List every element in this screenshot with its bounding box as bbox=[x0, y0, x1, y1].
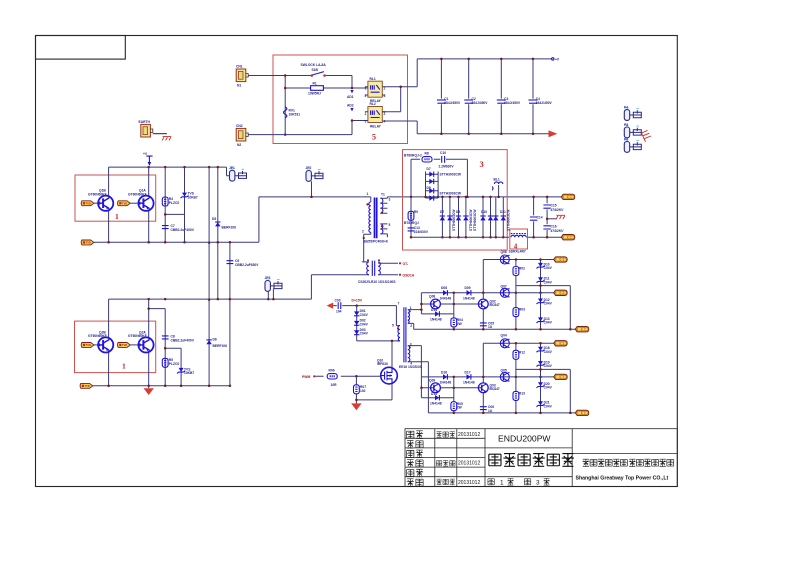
svg-text:C14: C14 bbox=[537, 216, 543, 220]
net arrow D+15V left bbox=[327, 303, 334, 309]
svg-text:N2: N2 bbox=[237, 143, 241, 147]
wire T2 sec A pins bbox=[408, 310, 422, 330]
designer names bbox=[436, 432, 455, 485]
svg-text:C04V: C04V bbox=[544, 404, 553, 408]
diode D5 bbox=[217, 167, 219, 300]
wire T2 sec B pins bbox=[408, 346, 429, 413]
svg-text:IRF630: IRF630 bbox=[377, 362, 388, 366]
capacitor C03 bbox=[333, 305, 396, 307]
svg-text:RL1: RL1 bbox=[370, 77, 376, 81]
svg-text:S1B: S1B bbox=[312, 68, 319, 72]
clamp diode D01 bbox=[356, 306, 358, 341]
wire clamp bottom to drain bbox=[357, 341, 400, 368]
capacitor C4 bbox=[529, 58, 553, 135]
zener D11 bbox=[537, 277, 545, 283]
capacitor C3 bbox=[497, 58, 521, 135]
svg-text:Q05: Q05 bbox=[501, 369, 507, 373]
svg-text:3: 3 bbox=[365, 119, 367, 123]
svg-text:D5: D5 bbox=[212, 217, 216, 221]
svg-text:R8: R8 bbox=[425, 152, 429, 156]
svg-text:D16: D16 bbox=[441, 370, 447, 374]
svg-text:BT80RQJ-2: BT80RQJ-2 bbox=[404, 153, 422, 157]
top bus lower IGBT section bbox=[109, 298, 312, 300]
svg-text:3: 3 bbox=[480, 159, 484, 169]
resistor R02 bbox=[513, 267, 519, 276]
svg-text:684J/450V: 684J/450V bbox=[536, 101, 553, 105]
svg-text:10W5RJ: 10W5RJ bbox=[308, 92, 321, 96]
bottom bus lower IGBT section bbox=[80, 383, 93, 388]
connector P6 bbox=[624, 140, 641, 152]
svg-text:C04V: C04V bbox=[360, 332, 369, 336]
secondary bottom rail bbox=[411, 236, 561, 238]
svg-text:1: 1 bbox=[500, 479, 504, 486]
svg-text:CBB2.2uF400V: CBB2.2uF400V bbox=[171, 228, 195, 232]
red highlight box 4 bbox=[510, 229, 528, 249]
capacitor C13 bbox=[408, 228, 415, 231]
zener D13 bbox=[537, 317, 545, 323]
net label PWM bbox=[313, 375, 315, 377]
svg-text:STTH6003CW: STTH6003CW bbox=[507, 209, 511, 231]
resistor R12 bbox=[513, 350, 519, 359]
svg-text:C04V: C04V bbox=[544, 266, 553, 270]
output terminal S1 bbox=[575, 327, 589, 332]
svg-text:PLZC0: PLZC0 bbox=[169, 201, 180, 205]
svg-text:20131012: 20131012 bbox=[458, 480, 480, 486]
svg-text:P4: P4 bbox=[624, 105, 628, 109]
svg-text:C04V: C04V bbox=[544, 321, 553, 325]
svg-text:1: 1 bbox=[122, 362, 126, 371]
svg-text:R13: R13 bbox=[519, 392, 525, 396]
earth symbol output bbox=[547, 218, 556, 220]
svg-text:10R: 10R bbox=[331, 383, 338, 387]
TVS D4 bbox=[165, 348, 181, 385]
svg-text:PLZC0: PLZC0 bbox=[169, 362, 180, 366]
svg-text:D14: D14 bbox=[431, 308, 437, 312]
wire Q10 source bbox=[356, 384, 392, 400]
current transformer CT1 bbox=[358, 259, 398, 284]
earth on P5 bbox=[642, 130, 652, 141]
revision box top-left bbox=[36, 36, 126, 60]
net arrow AD1 bbox=[350, 90, 353, 93]
svg-text:C04V: C04V bbox=[544, 385, 553, 389]
svg-text:BL1: BL1 bbox=[494, 178, 500, 182]
company name (Chinese) bbox=[582, 459, 673, 466]
svg-text:C15: C15 bbox=[551, 204, 557, 208]
connector JP2 bbox=[306, 169, 323, 181]
diode D08 bbox=[443, 290, 447, 295]
svg-text:Q07: Q07 bbox=[501, 285, 507, 289]
svg-text:2: 2 bbox=[362, 230, 364, 234]
resistor R07 bbox=[355, 376, 357, 403]
zener D20 bbox=[537, 382, 545, 388]
svg-text:Q09: Q09 bbox=[429, 378, 435, 382]
svg-text:C04V: C04V bbox=[544, 350, 553, 354]
svg-text:7: 7 bbox=[398, 302, 400, 306]
svg-text:RL2: RL2 bbox=[370, 102, 376, 106]
svg-text:1N4148: 1N4148 bbox=[463, 297, 475, 301]
svg-text:R9: R9 bbox=[414, 210, 418, 214]
wire left vertical of box5 bbox=[284, 76, 286, 135]
output terminal G2 bbox=[554, 290, 568, 295]
bottom rail driver A bbox=[414, 328, 576, 330]
svg-text:EE55/PC40/6+6: EE55/PC40/6+6 bbox=[364, 240, 388, 244]
svg-text:D7: D7 bbox=[427, 167, 431, 171]
capacitor C10 bbox=[442, 156, 445, 163]
+V power symbol left section bbox=[146, 156, 152, 163]
driver block A row gate bbox=[483, 259, 553, 261]
svg-text:AD1: AD1 bbox=[347, 95, 354, 99]
output cap C14 bbox=[533, 197, 535, 237]
output terminal G1 bbox=[554, 257, 568, 262]
svg-text:R02: R02 bbox=[519, 267, 525, 271]
resistor R1 bbox=[285, 87, 368, 89]
zener D18 bbox=[537, 347, 545, 353]
wire CN2 to relay 2 bbox=[248, 121, 368, 135]
svg-text:Shanghai Greatway Top Power CO: Shanghai Greatway Top Power CO.,Lt bbox=[576, 476, 669, 482]
svg-text:1N4148: 1N4148 bbox=[430, 401, 442, 405]
drive transformer T2 bbox=[392, 302, 423, 370]
svg-text:C16: C16 bbox=[551, 225, 557, 229]
svg-text:OSD1A: OSD1A bbox=[403, 273, 415, 277]
svg-text:1: 1 bbox=[365, 112, 367, 116]
svg-text:C10: C10 bbox=[440, 151, 446, 155]
TVS D3 bbox=[165, 167, 184, 214]
svg-text:D09: D09 bbox=[465, 286, 471, 290]
ground arrow bbox=[351, 403, 361, 410]
svg-text:R1: R1 bbox=[313, 81, 317, 85]
wire relay RL1 pin2 to cap bank bbox=[382, 87, 417, 112]
svg-text:P5: P5 bbox=[624, 123, 628, 127]
varistor RV1 bbox=[284, 107, 287, 118]
svg-text:D17: D17 bbox=[465, 370, 471, 374]
title block bbox=[405, 429, 677, 487]
output terminal G3 bbox=[554, 341, 568, 346]
svg-text:3: 3 bbox=[389, 198, 391, 202]
svg-text:5: 5 bbox=[389, 223, 391, 227]
wire cap bank bottom bus bbox=[417, 133, 548, 135]
middle vertical to bottom bus bbox=[229, 299, 231, 386]
wire TVS bottom joins bbox=[184, 214, 186, 242]
transistor Q08 row bbox=[421, 303, 478, 305]
svg-text:684J/450V: 684J/450V bbox=[504, 101, 521, 105]
vertical rails driver B bbox=[421, 343, 540, 413]
red highlight box 5 bbox=[273, 55, 408, 144]
capacitor C05 bbox=[480, 323, 487, 326]
diode D14 row bbox=[421, 313, 453, 315]
gate connector Q1A bbox=[118, 201, 131, 206]
connector CN5 earth bbox=[141, 124, 153, 137]
diode D6 bbox=[206, 340, 211, 344]
svg-text:1: 1 bbox=[367, 192, 369, 196]
connector CN1 (AC line in) bbox=[236, 69, 248, 82]
svg-text:JP1: JP1 bbox=[229, 166, 235, 170]
ground arrow red bbox=[148, 386, 150, 389]
output terminal OUT1 bbox=[561, 194, 575, 199]
transistor Q02 bbox=[478, 299, 488, 309]
svg-text:C04V: C04V bbox=[360, 322, 369, 326]
svg-text:1: 1 bbox=[115, 212, 119, 221]
switch S1B bbox=[301, 63, 327, 77]
resistor R08 bbox=[422, 157, 432, 162]
svg-text:20131012: 20131012 bbox=[458, 432, 480, 438]
connector P4 bbox=[624, 108, 641, 120]
svg-text:R12: R12 bbox=[519, 350, 525, 354]
svg-text:D+15V: D+15V bbox=[352, 298, 363, 302]
svg-text:D15: D15 bbox=[431, 392, 437, 396]
svg-text:10KB7: 10KB7 bbox=[188, 196, 198, 200]
resistor R4 bbox=[164, 167, 166, 242]
IGBT Q1A bbox=[148, 167, 150, 242]
mid wire to source terminal B bbox=[516, 369, 570, 413]
rectifier diode group DG1 bbox=[440, 196, 453, 239]
svg-text:2W: 2W bbox=[457, 406, 463, 410]
svg-text:STTH3003CW: STTH3003CW bbox=[440, 192, 462, 196]
+V power label bbox=[552, 58, 554, 60]
svg-text:STTH6003CW: STTH6003CW bbox=[452, 209, 456, 231]
svg-text:EE16 1S/3S/3S: EE16 1S/3S/3S bbox=[399, 365, 423, 369]
snubber loop wire bbox=[411, 159, 467, 197]
svg-text:2W: 2W bbox=[457, 322, 463, 326]
bottom rail driver B bbox=[428, 412, 575, 414]
svg-text:224/630V: 224/630V bbox=[414, 230, 429, 234]
gate connector Q2B bbox=[81, 343, 94, 348]
svg-text:C04V: C04V bbox=[360, 313, 369, 317]
capacitor C7 bbox=[162, 226, 169, 229]
wire CT primary return to lower bus bbox=[311, 275, 365, 299]
svg-text:1N4148: 1N4148 bbox=[463, 381, 475, 385]
output terminal S2 bbox=[575, 410, 589, 415]
svg-text:RELAY: RELAY bbox=[370, 125, 382, 129]
bottom bus of upper IGBT section bbox=[81, 240, 94, 245]
connector JP1 bbox=[230, 169, 247, 181]
resistor R5 bbox=[162, 358, 168, 367]
wire to chassis ground bbox=[153, 133, 167, 135]
svg-text:GT60N60KF: GT60N60KF bbox=[128, 192, 147, 196]
svg-text:3: 3 bbox=[536, 479, 540, 486]
svg-text:D08: D08 bbox=[441, 286, 447, 290]
svg-text:D11: D11 bbox=[500, 210, 506, 214]
svg-text:D9: D9 bbox=[456, 210, 460, 214]
resistor R05 bbox=[451, 402, 457, 411]
zener D10 bbox=[537, 263, 545, 269]
svg-text:CN2: CN2 bbox=[236, 124, 243, 128]
svg-text:EARTH: EARTH bbox=[139, 120, 151, 124]
svg-text:Q04: Q04 bbox=[501, 334, 507, 338]
svg-text:AD2: AD2 bbox=[347, 104, 354, 108]
red highlight box 3 bbox=[403, 150, 508, 250]
svg-text:CBB2.2uF630V: CBB2.2uF630V bbox=[235, 263, 259, 267]
transistor Q07 bbox=[500, 288, 509, 297]
svg-text:Q06: Q06 bbox=[501, 250, 507, 254]
svg-text:474/2KV: 474/2KV bbox=[550, 229, 565, 233]
IGBT Q2B bbox=[108, 299, 110, 386]
clamp diode D03 bbox=[354, 330, 359, 334]
svg-text:5: 5 bbox=[372, 133, 376, 142]
output caps C15 C16 bbox=[546, 197, 548, 237]
svg-text:D6: D6 bbox=[213, 337, 217, 341]
diode D17 bbox=[467, 374, 471, 379]
svg-text:10KB7: 10KB7 bbox=[184, 371, 194, 375]
connector CN2 (AC neutral in) bbox=[236, 128, 248, 141]
gate connector Q2A bbox=[118, 343, 131, 348]
driver block A row 2 bbox=[421, 292, 553, 294]
connector JP3 bbox=[265, 279, 282, 291]
top bus of upper IGBT section bbox=[109, 166, 227, 168]
vertical rails driver A bbox=[421, 260, 540, 330]
net arrow AD2 bbox=[350, 108, 353, 111]
svg-text:D10: D10 bbox=[481, 210, 487, 214]
svg-text:C04V: C04V bbox=[544, 364, 553, 368]
svg-text:D8: D8 bbox=[427, 186, 431, 190]
svg-text:4: 4 bbox=[384, 94, 386, 98]
svg-text:CBB2.2uF400V: CBB2.2uF400V bbox=[171, 338, 195, 342]
svg-text:D7: D7 bbox=[440, 210, 444, 214]
zener D19 bbox=[537, 361, 545, 367]
svg-text:20131012: 20131012 bbox=[458, 461, 480, 467]
svg-text:GT60N60KF: GT60N60KF bbox=[88, 334, 107, 338]
net label OT- bbox=[399, 262, 401, 264]
chassis earth symbol bbox=[162, 137, 171, 141]
resistor R13 bbox=[513, 391, 519, 400]
svg-text:102: 102 bbox=[360, 389, 366, 393]
rectifier diode group DG2 bbox=[456, 196, 469, 239]
svg-text:2: 2 bbox=[410, 324, 412, 328]
transistor Q09 row bbox=[421, 387, 478, 389]
svg-text:STTH6003CW: STTH6003CW bbox=[473, 209, 477, 231]
middle vertical rail with capacitor C9 bbox=[229, 242, 231, 299]
red highlight box 1 (upper) bbox=[75, 175, 156, 221]
transistor Q04 bbox=[500, 339, 509, 348]
capacitor C1 bbox=[437, 58, 461, 135]
svg-text:10K531: 10K531 bbox=[289, 113, 301, 117]
svg-text:1N4148: 1N4148 bbox=[440, 297, 452, 301]
svg-text:GT60N60KF: GT60N60KF bbox=[128, 334, 147, 338]
diode D09 bbox=[467, 290, 471, 295]
mid wire to source terminal bbox=[516, 286, 570, 330]
long vertical rail bbox=[208, 167, 210, 386]
svg-text:R03: R03 bbox=[519, 308, 525, 312]
svg-text:C03: C03 bbox=[335, 298, 341, 302]
svg-text:BC847: BC847 bbox=[490, 387, 500, 391]
gate connector Q1B bbox=[81, 201, 94, 206]
transistor Q03 bbox=[478, 383, 488, 393]
resistor R09 bbox=[410, 197, 412, 237]
resistor R06 bbox=[315, 375, 380, 377]
svg-text:P6: P6 bbox=[624, 137, 628, 141]
svg-text:1: 1 bbox=[365, 87, 367, 91]
svg-text:3: 3 bbox=[365, 94, 367, 98]
sheet numbers bbox=[488, 479, 494, 485]
svg-text:104: 104 bbox=[336, 310, 342, 314]
svg-text:GT60N60KF: GT60N60KF bbox=[88, 192, 107, 196]
wire relay RL2 pin4 out bbox=[382, 121, 417, 134]
capacitor C06 bbox=[480, 407, 487, 410]
diode D16 bbox=[443, 374, 447, 379]
rectifier diode group DG3 bbox=[480, 196, 493, 239]
net arrow right (bus output) bbox=[549, 130, 558, 137]
title block row labels (Chinese) bbox=[407, 431, 423, 487]
svg-text:CN1: CN1 bbox=[236, 65, 243, 69]
transistor Q05 bbox=[500, 372, 509, 381]
capacitor C2 bbox=[464, 58, 488, 135]
dual diode D7 bbox=[424, 167, 462, 198]
svg-text:BT80RQJ: BT80RQJ bbox=[404, 221, 419, 225]
svg-text:1U: 1U bbox=[488, 409, 493, 413]
capacitor C8 bbox=[149, 309, 166, 386]
svg-text:STTH3003CW: STTH3003CW bbox=[440, 173, 462, 177]
resistor R04 bbox=[451, 318, 457, 327]
resistor R03 bbox=[513, 308, 519, 317]
svg-text:CS2025-R10 1S/1S/100S: CS2025-R10 1S/1S/100S bbox=[358, 280, 396, 284]
MOSFET Q10 bbox=[381, 367, 398, 384]
dual diode D8 bbox=[426, 186, 462, 201]
main primary bus wire bbox=[259, 196, 561, 198]
relay RL1 bbox=[368, 81, 382, 97]
zener D21 bbox=[537, 401, 545, 407]
svg-text:JP2: JP2 bbox=[306, 166, 312, 170]
drawing title (Chinese) bbox=[489, 454, 574, 467]
rectifier diode group DG4 bbox=[493, 197, 506, 239]
svg-text:BERF106: BERF106 bbox=[213, 344, 228, 348]
output choke L2 bbox=[511, 233, 526, 235]
zener D12 bbox=[537, 299, 545, 305]
svg-text:1U: 1U bbox=[488, 325, 493, 329]
svg-text:PWM: PWM bbox=[302, 375, 310, 379]
svg-text:T1: T1 bbox=[381, 193, 385, 197]
svg-text:684J/450V: 684J/450V bbox=[444, 101, 461, 105]
svg-text:2.2M630V: 2.2M630V bbox=[439, 164, 455, 168]
wire switch to relay column bbox=[326, 76, 352, 89]
svg-text:R06: R06 bbox=[329, 369, 335, 373]
svg-text:C04V: C04V bbox=[544, 302, 553, 306]
svg-text:1N4148: 1N4148 bbox=[440, 381, 452, 385]
svg-text:ENDU200PW: ENDU200PW bbox=[498, 433, 551, 443]
main transformer T1 bbox=[362, 192, 391, 262]
IGBT Q2A bbox=[148, 299, 150, 386]
svg-text:OT-: OT- bbox=[403, 262, 409, 266]
svg-text:474/2KV: 474/2KV bbox=[550, 208, 565, 212]
drawing frame border bbox=[36, 36, 678, 487]
relay RL2 bbox=[368, 107, 382, 123]
connector P5 bbox=[624, 125, 641, 137]
driver block B row gate bbox=[483, 342, 553, 344]
IGBT Q1B bbox=[108, 167, 110, 242]
svg-text:JP3: JP3 bbox=[265, 276, 271, 280]
svg-text:684J/450V: 684J/450V bbox=[472, 101, 489, 105]
inductor BL1 bbox=[492, 178, 503, 199]
red highlight box 1 (lower) bbox=[75, 321, 156, 373]
svg-text:SWLOCK LA-8A: SWLOCK LA-8A bbox=[301, 63, 327, 67]
svg-text:BC847: BC847 bbox=[490, 303, 500, 307]
diode D15 row bbox=[421, 397, 453, 399]
svg-text:N1: N1 bbox=[237, 84, 241, 88]
svg-text:Q08: Q08 bbox=[429, 295, 435, 299]
svg-text:C04V: C04V bbox=[544, 280, 553, 284]
wire CN1 to switch bbox=[248, 75, 311, 77]
svg-text:BERF106: BERF106 bbox=[222, 225, 237, 229]
svg-text:SDRXL4R7: SDRXL4R7 bbox=[509, 249, 526, 253]
svg-text:5: 5 bbox=[392, 324, 394, 328]
transistor Q06 bbox=[500, 255, 509, 264]
output terminal G4 bbox=[554, 374, 568, 379]
net label OSD1A bbox=[399, 274, 401, 276]
output terminal OUT2 bbox=[561, 235, 575, 240]
wire cap bank top bus +V bbox=[417, 59, 552, 87]
svg-text:2: 2 bbox=[384, 112, 386, 116]
clamp diode D02 bbox=[354, 321, 359, 325]
svg-text:1N4148: 1N4148 bbox=[430, 318, 442, 322]
driver block B row 2 bbox=[421, 376, 553, 378]
